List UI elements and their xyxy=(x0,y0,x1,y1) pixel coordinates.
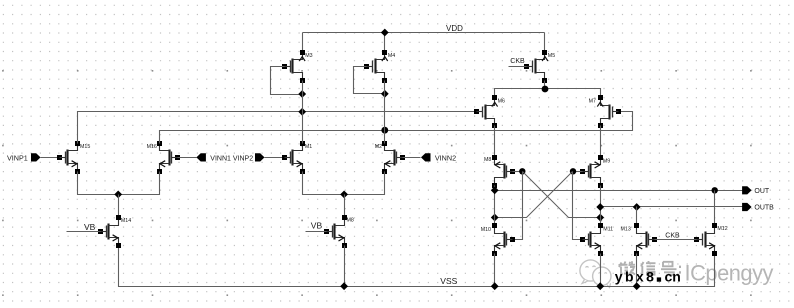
transistor M6 xyxy=(474,95,498,128)
svg-text:OUTB: OUTB xyxy=(754,205,774,212)
wire net A (M15 drain to M6 gate) xyxy=(78,112,477,144)
wire OUTB junction down to M13 drain xyxy=(636,207,638,226)
wire M5 drain to latch source rail xyxy=(544,81,546,89)
wire M1/M2 sources to tail node 2 xyxy=(303,172,385,195)
wire VDD to M5 source xyxy=(544,33,546,53)
svg-text:cn: cn xyxy=(665,269,681,285)
junction M5 drain rail xyxy=(542,86,549,93)
svg-text:VSS: VSS xyxy=(440,276,457,286)
transistor M8 xyxy=(492,155,515,188)
svg-text:M2: M2 xyxy=(375,144,382,150)
transistor M11 xyxy=(580,223,603,256)
svg-text:CKB: CKB xyxy=(510,58,525,65)
wire VB stub at M14 gate xyxy=(67,231,101,233)
wire M10 source to VSS xyxy=(494,254,496,287)
wire M8 source column to M10 drain xyxy=(494,186,496,226)
wire CKB stub at M5 gate xyxy=(509,66,527,68)
junction tail source at VSS xyxy=(340,282,348,290)
port flag OUT xyxy=(742,186,752,194)
wire right cross node down to M11 gate xyxy=(573,172,583,240)
junction M3 drain/gate xyxy=(298,90,306,98)
junction cross at left column xyxy=(491,214,499,222)
transistor M15 xyxy=(57,141,80,174)
wire M9 gate to cross node xyxy=(573,171,583,173)
wire tail node 2 down to tail transistor drain xyxy=(344,195,346,218)
svg-text:VDD: VDD xyxy=(446,24,463,33)
wire M4 drain column to M2 drain xyxy=(384,81,386,144)
wire tail node 1 down to M14 drain xyxy=(118,195,120,218)
transistor M4 xyxy=(364,50,388,83)
wire M3 gate-drain loop xyxy=(271,67,303,95)
transistor M12 xyxy=(694,223,717,256)
wire OUT junction down to M12 drain xyxy=(714,191,716,226)
wire cross-couple diagonal left to right xyxy=(523,172,601,218)
wire OUT net xyxy=(495,190,743,192)
wire M9 source column to M11 drain xyxy=(600,186,602,226)
wire VINP1 to M15 gate xyxy=(41,157,60,159)
svg-text:M15: M15 xyxy=(80,144,90,150)
wire tail source to VSS xyxy=(344,246,346,287)
wire M13 source to VSS xyxy=(636,254,638,287)
transistor M16 xyxy=(157,141,180,174)
wire VB stub at tail gate xyxy=(306,231,327,233)
wire VDD rail xyxy=(303,32,545,34)
svg-text:ICpengyy: ICpengyy xyxy=(685,261,774,286)
svg-text:M9: M9 xyxy=(603,159,610,165)
junction OUTB at M9 column xyxy=(596,203,604,211)
svg-text:VINN2: VINN2 xyxy=(435,154,456,163)
svg-text:M10: M10 xyxy=(481,227,491,233)
wire VINP2 flag to M1 gate xyxy=(265,157,285,159)
transistor M14 xyxy=(98,215,121,248)
junction tail node 1 xyxy=(114,191,122,199)
port flag OUTB xyxy=(742,203,752,211)
wire M11 source to VSS xyxy=(600,254,602,287)
junction cross node left xyxy=(519,168,525,174)
junction VDD at M4 xyxy=(381,29,389,37)
svg-text:M6: M6 xyxy=(498,99,505,105)
transistor M2 xyxy=(382,141,405,174)
junction cross node right xyxy=(570,168,576,174)
svg-text:VINP1: VINP1 xyxy=(7,153,28,162)
wire M6 drain to M8 drain xyxy=(494,126,496,158)
junction OUT at M8 column xyxy=(491,186,499,194)
junction OUTB at M13 column xyxy=(633,203,641,211)
junction M13 source at VSS xyxy=(633,282,641,290)
svg-text:M14: M14 xyxy=(121,218,131,224)
svg-text:M13: M13 xyxy=(620,227,630,233)
svg-text:M8: M8 xyxy=(347,217,354,223)
wire left cross node down to M10 gate xyxy=(514,172,523,240)
transistor M7 xyxy=(597,95,621,128)
transistor M8 (tail) xyxy=(324,215,347,248)
svg-text:VB: VB xyxy=(84,222,96,232)
transistor M10 xyxy=(492,223,515,256)
junction M10 source at VSS xyxy=(491,282,499,290)
transistor M3 xyxy=(282,50,305,83)
svg-text:M4: M4 xyxy=(388,53,395,59)
svg-text:M8: M8 xyxy=(484,157,491,163)
wire VDD to M4 source xyxy=(384,33,386,53)
wire M2 gate to VINN2 flag xyxy=(403,157,421,159)
transistor M9 xyxy=(580,155,603,188)
wire M8 gate to cross node xyxy=(513,171,523,173)
svg-text:VB: VB xyxy=(311,220,323,230)
wire M4 gate-drain loop xyxy=(354,67,385,94)
wire M7 drain to M9 drain xyxy=(600,126,602,158)
transistor M5 xyxy=(524,50,548,83)
junction OUT at M12 column xyxy=(712,187,718,193)
svg-text:M3: M3 xyxy=(305,53,312,59)
junction M11 source at VSS xyxy=(596,282,604,290)
wire cross-couple diagonal right to left xyxy=(495,172,573,218)
wire VDD to M3 source xyxy=(302,33,304,53)
transistor M1 xyxy=(282,141,305,174)
watermark gray chinese text wei xin hao xyxy=(619,261,682,275)
junction cross at right column xyxy=(596,214,604,222)
wire OUTB net xyxy=(601,206,743,208)
junction M4 drain/gate xyxy=(381,90,389,98)
wire net B (M16 drain to M7 gate) xyxy=(160,112,633,144)
svg-text:M12: M12 xyxy=(717,226,727,232)
svg-text:VINN1 VINP2: VINN1 VINP2 xyxy=(210,156,253,163)
svg-text:M11: M11 xyxy=(603,227,613,233)
transistor M13 xyxy=(634,223,657,256)
svg-text:M16: M16 xyxy=(147,144,157,150)
port flag VINN2 xyxy=(421,153,431,161)
watermark wechat logo xyxy=(580,260,611,288)
svg-text:ybx8: ybx8 xyxy=(615,269,657,285)
port flag VINP2 xyxy=(255,153,265,161)
junction tail node 2 xyxy=(340,191,348,199)
svg-text:OUT: OUT xyxy=(754,188,770,195)
junction node A at M3/M1 column xyxy=(298,108,306,116)
svg-text:M7: M7 xyxy=(589,98,596,104)
svg-text:CKB: CKB xyxy=(665,232,680,239)
junction node B at M4/M2 column xyxy=(381,127,388,134)
port flag VINP1 xyxy=(31,153,41,161)
port flag VINN1 xyxy=(196,153,206,161)
wire M3 drain column to M1 drain xyxy=(302,81,304,144)
svg-text:M5: M5 xyxy=(548,53,555,59)
wire M15/M16 sources to tail node xyxy=(78,172,160,195)
wire CKB between M13 and M12 gates xyxy=(655,239,697,241)
wire M16 gate to VINN1 flag xyxy=(178,157,197,159)
svg-text:M1: M1 xyxy=(305,144,312,150)
wire VSS rail xyxy=(119,246,715,287)
